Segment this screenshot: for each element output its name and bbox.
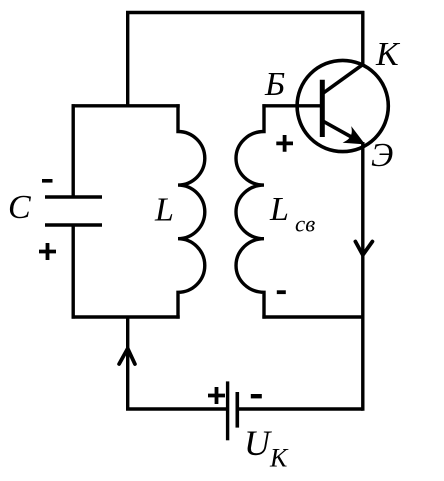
wire left vertical below capacitor (71, 226, 74, 319)
arrow down on right vertical wire (355, 242, 372, 256)
svg-text:Э: Э (371, 137, 393, 174)
wire right vertical from emitter down (361, 142, 364, 411)
svg-text:К: К (375, 36, 401, 73)
wire battery right to bottom-right corner (239, 407, 363, 410)
label plus at battery (208, 387, 225, 404)
svg-text:C: C (8, 189, 31, 226)
battery long plate (+) (226, 381, 229, 440)
transistor collector line (322, 64, 364, 94)
wire left vertical drop from top (126, 11, 129, 107)
capacitor C bottom plate (45, 223, 102, 226)
label minus at Lsv bottom (277, 290, 286, 294)
inductor L (right branch of tank, 3 loops bulging right) (178, 104, 205, 318)
label plus below capacitor (39, 243, 56, 260)
wire middle stub down to battery (128, 316, 226, 410)
label minus at battery (251, 394, 262, 398)
wire base lead (262, 104, 322, 107)
arrow up on middle stub (119, 349, 135, 365)
wire Lsv bottom horizontal (262, 315, 364, 318)
svg-text:св: св (295, 212, 315, 237)
svg-text:L: L (269, 191, 289, 228)
wire tank top horizontal (72, 104, 180, 107)
wire left vertical to capacitor (71, 104, 74, 196)
wire right vertical collector from top (361, 11, 364, 66)
wire top horizontal (126, 11, 364, 14)
svg-text:Б: Б (264, 66, 285, 103)
svg-text:L: L (154, 192, 174, 229)
svg-text:К: К (269, 444, 289, 473)
transistor emitter line (322, 120, 356, 139)
label plus at Lsv top (276, 135, 293, 152)
label minus above capacitor (42, 179, 53, 183)
wire tank bottom horizontal (72, 315, 180, 318)
transistor base bar (320, 80, 325, 137)
transistor emitter arrowhead (345, 129, 363, 144)
inductor Lsv (coupling coil, 3 loops bulging left) (236, 104, 264, 318)
battery short plate (-) (236, 392, 240, 428)
transistor circle (297, 60, 388, 151)
capacitor C top plate (45, 195, 102, 198)
svg-text:U: U (244, 423, 272, 463)
